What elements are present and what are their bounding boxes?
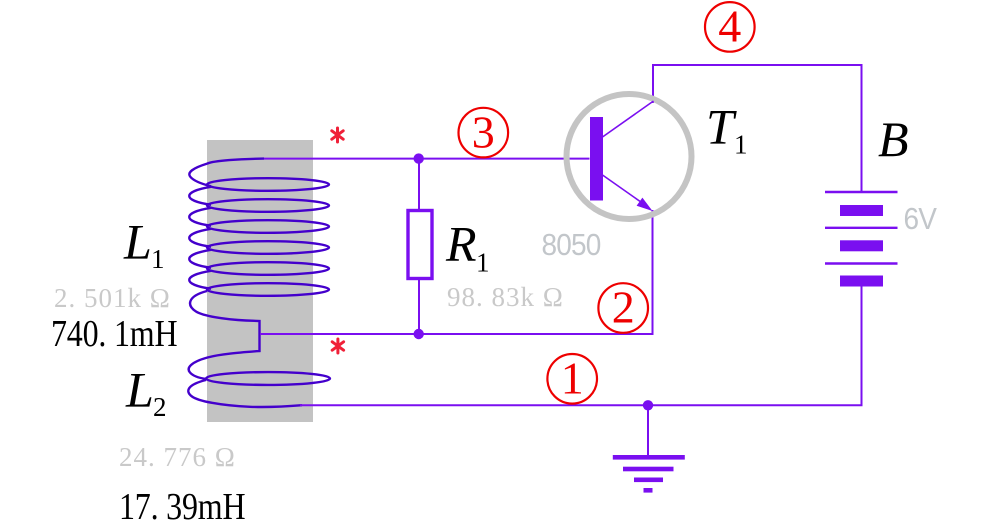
junction dot node1 (643, 400, 653, 410)
junction dot node2 (414, 329, 424, 339)
svg-text:R: R (445, 216, 477, 272)
battery plate short 1 (840, 205, 883, 216)
svg-text:98. 83k Ω: 98. 83k Ω (447, 282, 564, 312)
ground bar 3 (634, 478, 663, 483)
polarity asterisk top (332, 128, 343, 142)
battery plate long 2 (825, 227, 898, 229)
node label circle 2 (598, 283, 648, 333)
node label circle 1 (547, 354, 597, 404)
svg-text:17. 39mH: 17. 39mH (119, 486, 245, 528)
svg-text:8050: 8050 (542, 228, 602, 263)
inductor L1 (189, 159, 329, 296)
ground bar 4 (644, 488, 653, 493)
inductor L2 (188, 372, 330, 407)
wire node4 (collector to battery plus) (653, 65, 862, 192)
battery plate long 3 (825, 262, 898, 264)
svg-text:1: 1 (476, 248, 490, 278)
transistor T1 body circle (567, 94, 692, 219)
battery plate short 3 (840, 276, 883, 287)
wire node1 (coil bottom to battery minus) (300, 286, 862, 405)
svg-text:L: L (125, 362, 154, 418)
center tap of coil (189, 291, 260, 379)
svg-text:24. 776 Ω: 24. 776 Ω (119, 442, 236, 472)
transistor T1 emitter line (603, 175, 644, 204)
polarity asterisk tap (332, 339, 343, 353)
svg-text:3: 3 (472, 106, 495, 157)
svg-text:740. 1mH: 740. 1mH (51, 312, 177, 354)
svg-text:T: T (706, 98, 737, 154)
svg-text:1: 1 (561, 353, 584, 404)
svg-text:2. 501k Ω: 2. 501k Ω (54, 283, 171, 313)
svg-text:L: L (123, 214, 152, 270)
svg-text:1: 1 (151, 244, 165, 274)
transistor T1 base bar (590, 117, 603, 201)
svg-text:4: 4 (718, 1, 741, 52)
wire ground stub (647, 405, 649, 456)
node label circle 4 (705, 2, 755, 52)
svg-text:6V: 6V (904, 202, 938, 237)
battery plate short 2 (840, 240, 883, 251)
ground bar 2 (623, 467, 674, 472)
wire R1 bottom branch (418, 278, 420, 334)
transistor T1 emitter arrow (637, 198, 653, 211)
core (iron core of transformer) (207, 140, 313, 422)
junction dot node3 (414, 153, 424, 163)
transistor T1 collector line (603, 101, 654, 137)
svg-text:B: B (878, 111, 909, 167)
resistor R1 (408, 211, 432, 279)
battery plate long 1 (825, 191, 898, 193)
ground bar 1 (613, 455, 685, 460)
svg-text:1: 1 (734, 130, 748, 160)
wire R1 top branch (418, 159, 420, 211)
wire node3 (coil top to base) (264, 158, 590, 160)
wire node2 (tap to emitter) (260, 210, 653, 334)
svg-text:2: 2 (612, 282, 635, 333)
node label circle 3 (459, 108, 509, 158)
svg-text:2: 2 (153, 392, 167, 422)
